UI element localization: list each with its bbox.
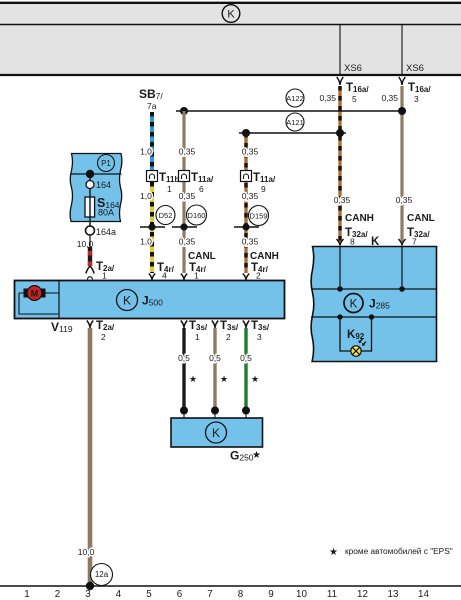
connector T32a/7 [399,227,431,247]
svg-text:кроме автомобилей с "EPS": кроме автомобилей с "EPS" [345,546,453,556]
wire end nodes at G250 [180,407,188,415]
svg-text:★: ★ [189,374,197,384]
wire CANH right column (or/sw) [338,86,341,242]
svg-text:1: 1 [195,332,200,342]
svg-text:14: 14 [418,589,429,600]
connector T3s/3 [243,320,270,342]
plus connection P1 [98,155,115,172]
node on wire3 top [242,129,250,137]
svg-text:0,5: 0,5 [178,353,190,363]
svg-text:CANL: CANL [188,251,216,262]
svg-text:9: 9 [261,184,266,194]
svg-text:1,0: 1,0 [140,191,152,201]
connector T3s/2 [212,320,239,342]
svg-text:K: K [227,9,235,21]
svg-text:D160: D160 [188,211,206,220]
control unit J500 box [15,281,285,319]
svg-text:0,5: 0,5 [209,353,221,363]
svg-text:3: 3 [257,332,262,342]
svg-text:2: 2 [256,271,261,281]
svg-text:9: 9 [268,589,273,600]
svg-text:★: ★ [329,547,338,558]
svg-text:0,35: 0,35 [242,147,259,157]
svg-text:2: 2 [55,589,60,600]
svg-text:P1: P1 [101,159,111,168]
svg-text:CANH: CANH [250,251,279,262]
wire inside J285 from T32a/7 [401,246,403,289]
connector T2a/1 [86,261,115,281]
svg-text:CANH: CANH [345,213,374,224]
ground rail numbering [24,589,429,600]
svg-text:A122: A122 [286,94,304,103]
svg-text:164: 164 [96,180,111,190]
connector T4r/1 [181,262,207,281]
ground rail [0,585,461,587]
node on plus rail [86,170,94,178]
motor V119 [19,286,59,314]
splice label A121 [286,113,304,131]
connector T4r/4 [149,262,175,281]
control unit J285 box [311,247,437,362]
svg-text:K: K [212,426,220,440]
control unit label J285 [344,294,390,313]
svg-text:M: M [31,289,39,299]
K bus symbol [222,5,240,23]
svg-text:13: 13 [388,589,399,600]
bus bar band [0,3,461,75]
svg-text:1: 1 [102,271,107,281]
node on CANH right [336,129,344,137]
svg-text:8: 8 [350,237,355,247]
svg-text:12: 12 [357,589,368,600]
connector T11a/9 [241,171,276,195]
svg-text:4: 4 [162,271,167,281]
svg-text:0,35: 0,35 [242,237,259,247]
svg-text:1: 1 [24,589,29,600]
svg-text:0,35: 0,35 [242,191,259,201]
connector T2a/2 [87,320,115,342]
svg-text:8: 8 [238,589,244,600]
svg-text:11: 11 [327,589,337,600]
fuse S164 80A [85,196,120,218]
connector T16a/5 [319,77,369,104]
terminal 164a [86,226,117,237]
connector T11b/1 [147,171,183,195]
svg-text:7: 7 [207,589,212,600]
svg-text:2: 2 [101,332,106,342]
svg-text:1,0: 1,0 [140,237,152,247]
svg-text:2: 2 [226,332,231,342]
svg-text:12a: 12a [95,570,109,579]
ground point 12a [91,564,113,586]
svg-text:0,35: 0,35 [381,93,398,103]
svg-text:7a: 7a [147,101,157,111]
wire A122 link line [176,110,406,112]
wire inside fuse box [89,174,91,227]
lamp symbol K92 [351,339,366,356]
splice D159 [234,206,269,231]
wire T3s/3 (green 0,5) [244,328,247,408]
splice D160 [172,205,207,231]
connector T16a/3 [381,77,431,104]
svg-text:K: K [123,294,131,308]
svg-text:80A: 80A [98,208,114,218]
splice D52 [140,206,175,231]
fuse holder box with P1 [70,154,122,222]
svg-text:0,35: 0,35 [396,195,413,205]
svg-text:6: 6 [177,589,183,600]
wire CANL right column (brown) [400,86,403,242]
ground node [86,582,94,590]
wire 3 segment (or/sw 0,35) [244,133,247,273]
svg-text:4: 4 [116,589,122,600]
svg-text:★: ★ [252,450,261,461]
svg-text:1,0: 1,0 [140,147,152,157]
node on CANL right [398,107,406,115]
wire fuse to J500 (ro/sw) [89,235,91,266]
svg-text:★: ★ [251,374,259,384]
wire 1 upper segment (blue/black, 1,0) [150,112,154,170]
svg-text:0,35: 0,35 [334,195,351,205]
svg-text:3: 3 [85,589,91,600]
svg-text:0,35: 0,35 [179,191,196,201]
svg-text:A121: A121 [286,118,304,127]
wire A121 link line [239,132,346,134]
wire T3s/2 (brown 0,5) [213,328,216,408]
svg-text:5: 5 [146,589,152,600]
svg-text:0,35: 0,35 [179,237,196,247]
svg-text:164a: 164a [96,227,116,237]
wire XS6 right (in band) [401,25,403,76]
svg-text:XS6: XS6 [406,63,424,74]
connector T32a/8 [337,227,369,247]
svg-text:1: 1 [194,271,199,281]
svg-text:5: 5 [352,94,357,104]
svg-text:CANL: CANL [407,213,435,224]
svg-text:K: K [350,299,358,311]
ground connection G250 box [171,418,263,447]
connector T11a/6 [179,171,214,195]
terminal 164 [86,180,111,190]
svg-text:3: 3 [414,94,419,104]
svg-text:6: 6 [199,184,204,194]
svg-text:10: 10 [296,589,307,600]
svg-text:D52: D52 [159,211,173,220]
fuse label SB7 [139,87,163,111]
svg-text:★: ★ [220,374,228,384]
svg-text:1: 1 [167,184,172,194]
wire T3s/1 (black 0,5) [182,328,185,408]
svg-text:0,35: 0,35 [179,147,196,157]
svg-text:0,5: 0,5 [240,353,252,363]
connector T3s/1 [181,320,208,342]
svg-text:7: 7 [412,237,417,247]
svg-text:D159: D159 [250,212,268,221]
wire T2a/2 to ground (brown 10,0) [88,328,93,584]
wire 1 lower segments (yellow/black 1,0) [150,182,154,273]
splice label A122 [286,89,304,107]
svg-text:0,35: 0,35 [319,93,336,103]
lamp K92 circuit [337,314,374,351]
wire XS6 left (in band) [339,25,341,76]
wire inside J285 from T32a/8 [339,246,341,289]
svg-text:10,0: 10,0 [78,547,95,557]
wire 2 middle segment (brown 0,35) [182,111,185,273]
svg-text:XS6: XS6 [344,63,362,74]
connector T4r/2 [243,262,269,281]
node on wire2 top [180,107,188,115]
